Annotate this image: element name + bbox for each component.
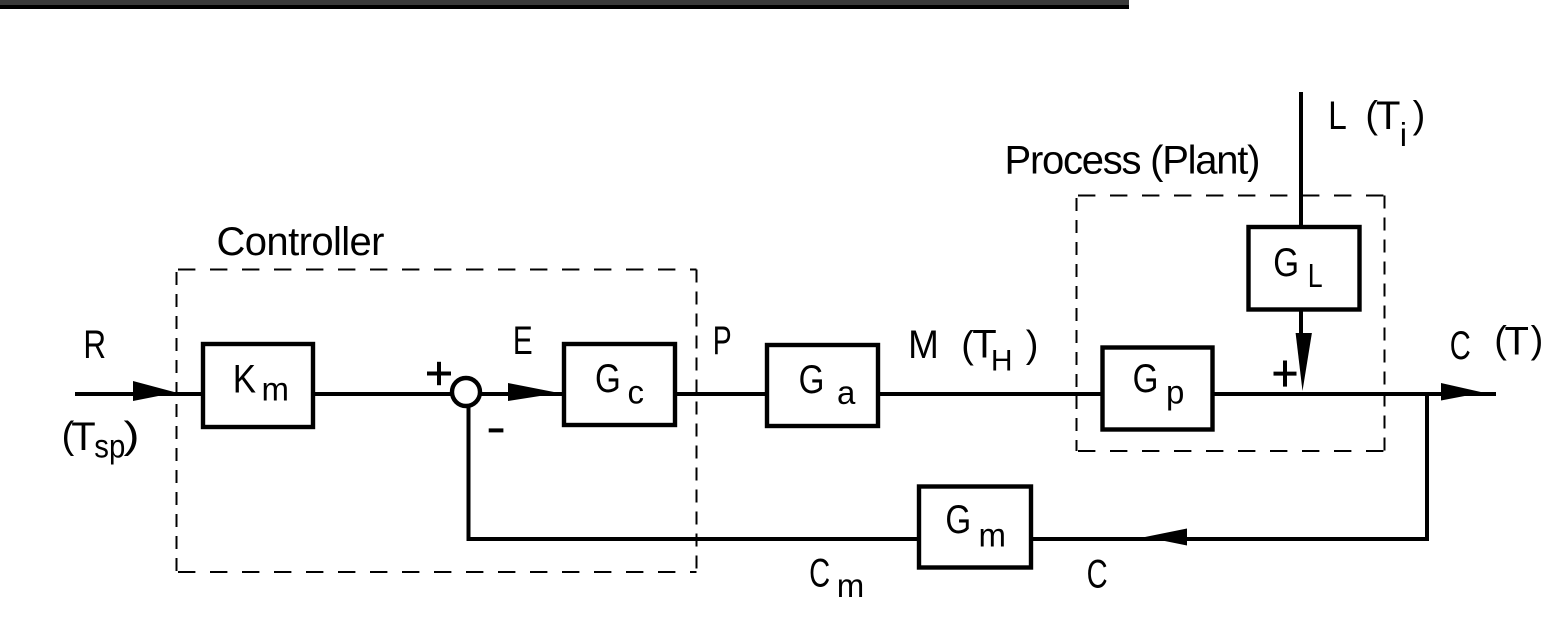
- wire: G_L down to summing point: [1299, 309, 1303, 338]
- arrow on feedback line (to the left): [1145, 529, 1187, 546]
- svg-text:T: T: [71, 415, 95, 459]
- svg-text:P: P: [713, 319, 732, 363]
- wire: K_m to summing junction: [313, 392, 452, 396]
- wire: output down leg for feedback: [1425, 392, 1429, 541]
- svg-text:T: T: [1376, 94, 1400, 138]
- summing junction circle: [452, 378, 480, 406]
- wire: feedback left segment (G_m to summing junction): [467, 537, 920, 541]
- svg-text:): ): [1531, 319, 1544, 361]
- arrow on output C: [1441, 383, 1483, 401]
- dashed box Process: top edge: [1078, 195, 1385, 197]
- svg-text:R: R: [83, 323, 106, 367]
- block G_L: [1249, 227, 1360, 310]
- svg-text:T: T: [1505, 319, 1529, 363]
- svg-text:c: c: [628, 374, 645, 411]
- wire: G_c to G_a: [673, 392, 771, 396]
- svg-text:C: C: [1450, 324, 1471, 368]
- block G_a: [767, 345, 878, 426]
- svg-text:H: H: [991, 344, 1013, 377]
- svg-text:m: m: [979, 517, 1007, 554]
- wire: G_a to G_p: [876, 392, 1105, 396]
- dashed box Controller: right edge: [696, 270, 698, 573]
- wire: summing junction down leg: [467, 406, 471, 541]
- dashed box Process: left edge: [1076, 198, 1078, 451]
- wire: feedback right segment (C to G_m): [1031, 537, 1429, 541]
- svg-text:M: M: [908, 323, 939, 367]
- svg-text:p: p: [1166, 374, 1184, 411]
- svg-text:G: G: [945, 498, 971, 542]
- svg-text:Controller: Controller: [217, 220, 385, 264]
- dashed box Controller: left edge: [176, 272, 178, 572]
- dashed box Process: right edge: [1384, 196, 1386, 452]
- dashed box Controller: bottom edge: [178, 571, 697, 573]
- svg-text:L: L: [1308, 257, 1323, 294]
- svg-text:sp: sp: [94, 427, 125, 464]
- svg-text:G: G: [799, 358, 825, 402]
- svg-text:C: C: [809, 552, 830, 596]
- svg-text:E: E: [513, 319, 533, 363]
- block G_c: [564, 344, 675, 425]
- wire: G_p to output C: [1210, 392, 1496, 396]
- svg-text:m: m: [262, 370, 290, 407]
- wire: load input L vertical: [1299, 92, 1303, 227]
- svg-text:m: m: [837, 567, 865, 604]
- svg-text:a: a: [837, 374, 856, 411]
- minus sign at summing junction: [489, 428, 504, 432]
- plus sign at load summing point: [1274, 372, 1297, 376]
- svg-text:G: G: [1273, 241, 1299, 285]
- wire: input R to K_m: [75, 392, 205, 396]
- block G_p: [1103, 348, 1213, 430]
- dashed box Controller: top edge: [178, 269, 697, 271]
- arrow from G_L into main line: [1296, 333, 1312, 391]
- arrow into controller (input R): [133, 381, 176, 401]
- svg-text:): ): [124, 415, 140, 457]
- block K_m: [203, 344, 313, 427]
- svg-text:): ): [1026, 324, 1039, 366]
- svg-text:L: L: [1328, 94, 1347, 138]
- dashed box Process: bottom edge: [1078, 450, 1385, 452]
- svg-text:Process (Plant): Process (Plant): [1005, 139, 1261, 183]
- top toolbar remnant bar (gray): [0, 0, 1129, 5]
- svg-text:G: G: [595, 357, 621, 401]
- plus sign at summing junction: [427, 372, 451, 376]
- svg-text:): ): [1413, 95, 1426, 137]
- wire: summing junction to G_c: [480, 392, 566, 396]
- svg-text:i: i: [1400, 116, 1407, 153]
- arrow into G_c (E signal): [508, 383, 559, 401]
- block G_m: [919, 487, 1031, 568]
- svg-text:K: K: [233, 358, 257, 402]
- top toolbar remnant bar (black): [0, 5, 1129, 9]
- svg-text:C: C: [1087, 553, 1108, 597]
- svg-text:G: G: [1133, 357, 1159, 401]
